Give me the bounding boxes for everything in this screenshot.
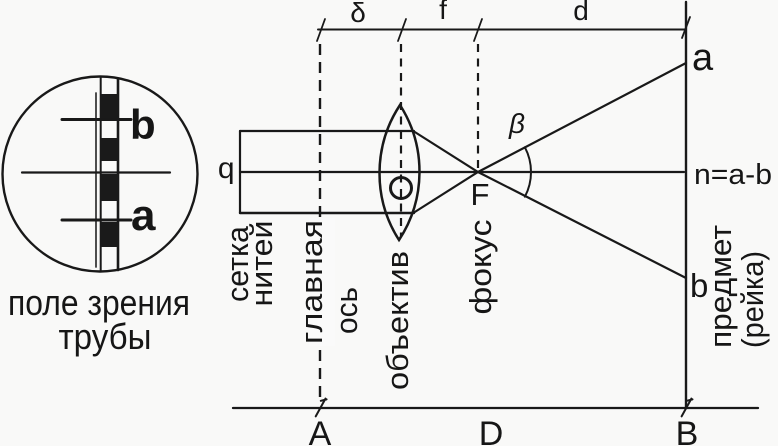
rotated label: glavnaya (white backed): [294, 218, 335, 346]
lens center circle: [391, 178, 412, 199]
staff black segment 3: [100, 174, 119, 201]
svg-text:n=a-b: n=a-b: [694, 159, 772, 191]
staff black segment 1: [100, 94, 119, 119]
staff black segment 4: [100, 222, 119, 247]
svg-text:трубы: трубы: [59, 316, 152, 357]
reticle lower stadia line a: [62, 219, 131, 222]
dimension tick at x=478: [474, 19, 482, 41]
ground baseline: [233, 407, 758, 409]
reticle middle horizontal hair: [22, 171, 170, 173]
svg-text:A: A: [309, 415, 332, 446]
telescope tube top: [240, 130, 414, 132]
reticle vertical hair: [95, 93, 97, 267]
dashed lens axis: [400, 44, 402, 236]
svg-text:ось: ось: [329, 287, 364, 334]
objective lens outline: [380, 105, 420, 240]
svg-text:нитей: нитей: [244, 221, 279, 307]
telescope tube bottom: [240, 212, 414, 214]
dimension tick at x=686: [682, 17, 690, 38]
svg-text:B: B: [676, 415, 699, 446]
staff strip right border: [117, 79, 120, 270]
svg-text:d: d: [573, 0, 589, 26]
beta angle arc: [525, 147, 531, 196]
svg-text:a: a: [692, 37, 714, 79]
arrow slash at A: [316, 399, 327, 417]
upper ray (tube top through F to b): [414, 132, 686, 279]
svg-text:b: b: [130, 101, 156, 148]
svg-text:δ: δ: [350, 0, 366, 28]
field-of-view circle: [3, 77, 198, 272]
svg-text:F: F: [471, 177, 490, 212]
svg-text:β: β: [508, 108, 525, 139]
dashed focus line: [477, 44, 479, 170]
dimension tick at x=402: [398, 19, 406, 41]
svg-text:q: q: [218, 152, 235, 185]
arrow slash at B: [682, 399, 693, 417]
staff strip left border: [100, 77, 102, 271]
svg-text:D: D: [479, 415, 504, 446]
svg-text:a: a: [131, 191, 156, 240]
svg-text:f: f: [439, 0, 447, 25]
svg-text:объектив: объектив: [380, 251, 415, 390]
svg-text:предмет: предмет: [703, 225, 738, 348]
svg-text:(рейка): (рейка): [735, 251, 770, 348]
reticle upper stadia line b: [62, 118, 131, 121]
staff vertical line (object): [685, 2, 687, 407]
optical axis: [240, 171, 684, 173]
dimension tick at x=321: [317, 19, 325, 41]
dimension line top: [318, 29, 686, 31]
svg-text:фокус: фокус: [463, 220, 498, 315]
staff black segment 2: [100, 138, 119, 161]
telescope tube left edge: [239, 131, 241, 213]
lower ray (tube bottom through F to a): [414, 63, 686, 213]
dashed axis A (glavnaya os): [319, 44, 321, 401]
svg-text:главная: главная: [294, 220, 329, 344]
